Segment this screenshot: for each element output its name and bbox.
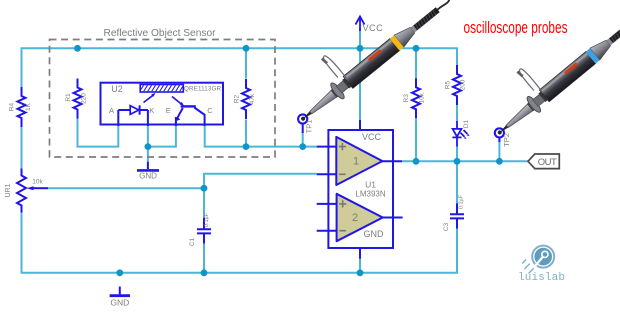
svg-text:UR1: UR1	[5, 183, 12, 197]
svg-text:VCC: VCC	[362, 132, 382, 142]
svg-text:QRE1113GR: QRE1113GR	[184, 86, 221, 93]
svg-text:U1: U1	[365, 180, 376, 190]
svg-text:1: 1	[353, 156, 359, 168]
svg-text:TP1: TP1	[305, 120, 314, 134]
svg-text:10k: 10k	[418, 92, 425, 103]
svg-text:Reflective Object Sensor: Reflective Object Sensor	[104, 28, 217, 39]
svg-text:1K: 1K	[25, 102, 32, 111]
svg-text:K: K	[149, 106, 154, 115]
svg-text:U2: U2	[111, 84, 123, 94]
svg-text:0.1µF: 0.1µF	[204, 212, 210, 227]
svg-text:luislab: luislab	[518, 272, 565, 284]
svg-text:LM393N: LM393N	[355, 190, 385, 199]
svg-text:D1: D1	[463, 119, 470, 128]
svg-text:oscilloscope probes: oscilloscope probes	[464, 18, 568, 37]
svg-text:C1: C1	[189, 237, 196, 246]
svg-text:E: E	[166, 106, 171, 115]
svg-text:GND: GND	[110, 297, 129, 307]
svg-text:A: A	[109, 106, 114, 115]
svg-text:2: 2	[352, 212, 358, 224]
svg-text:R5: R5	[444, 80, 451, 89]
svg-text:C3: C3	[443, 222, 450, 231]
svg-text:R2: R2	[233, 94, 240, 103]
svg-text:47k: 47k	[249, 93, 256, 104]
svg-text:10k: 10k	[32, 179, 43, 186]
svg-text:0.1µF: 0.1µF	[458, 194, 464, 209]
svg-text:OUT: OUT	[538, 157, 557, 168]
svg-text:GND: GND	[364, 229, 385, 239]
svg-text:R1: R1	[65, 93, 72, 102]
svg-text:VCC: VCC	[363, 23, 384, 33]
svg-text:GND: GND	[139, 171, 157, 180]
svg-text:R4: R4	[9, 102, 16, 111]
svg-text:TP2: TP2	[502, 133, 511, 147]
svg-text:220: 220	[80, 93, 87, 104]
svg-text:R3: R3	[403, 94, 410, 103]
svg-text:C: C	[207, 106, 213, 115]
svg-text:200: 200	[459, 79, 466, 90]
